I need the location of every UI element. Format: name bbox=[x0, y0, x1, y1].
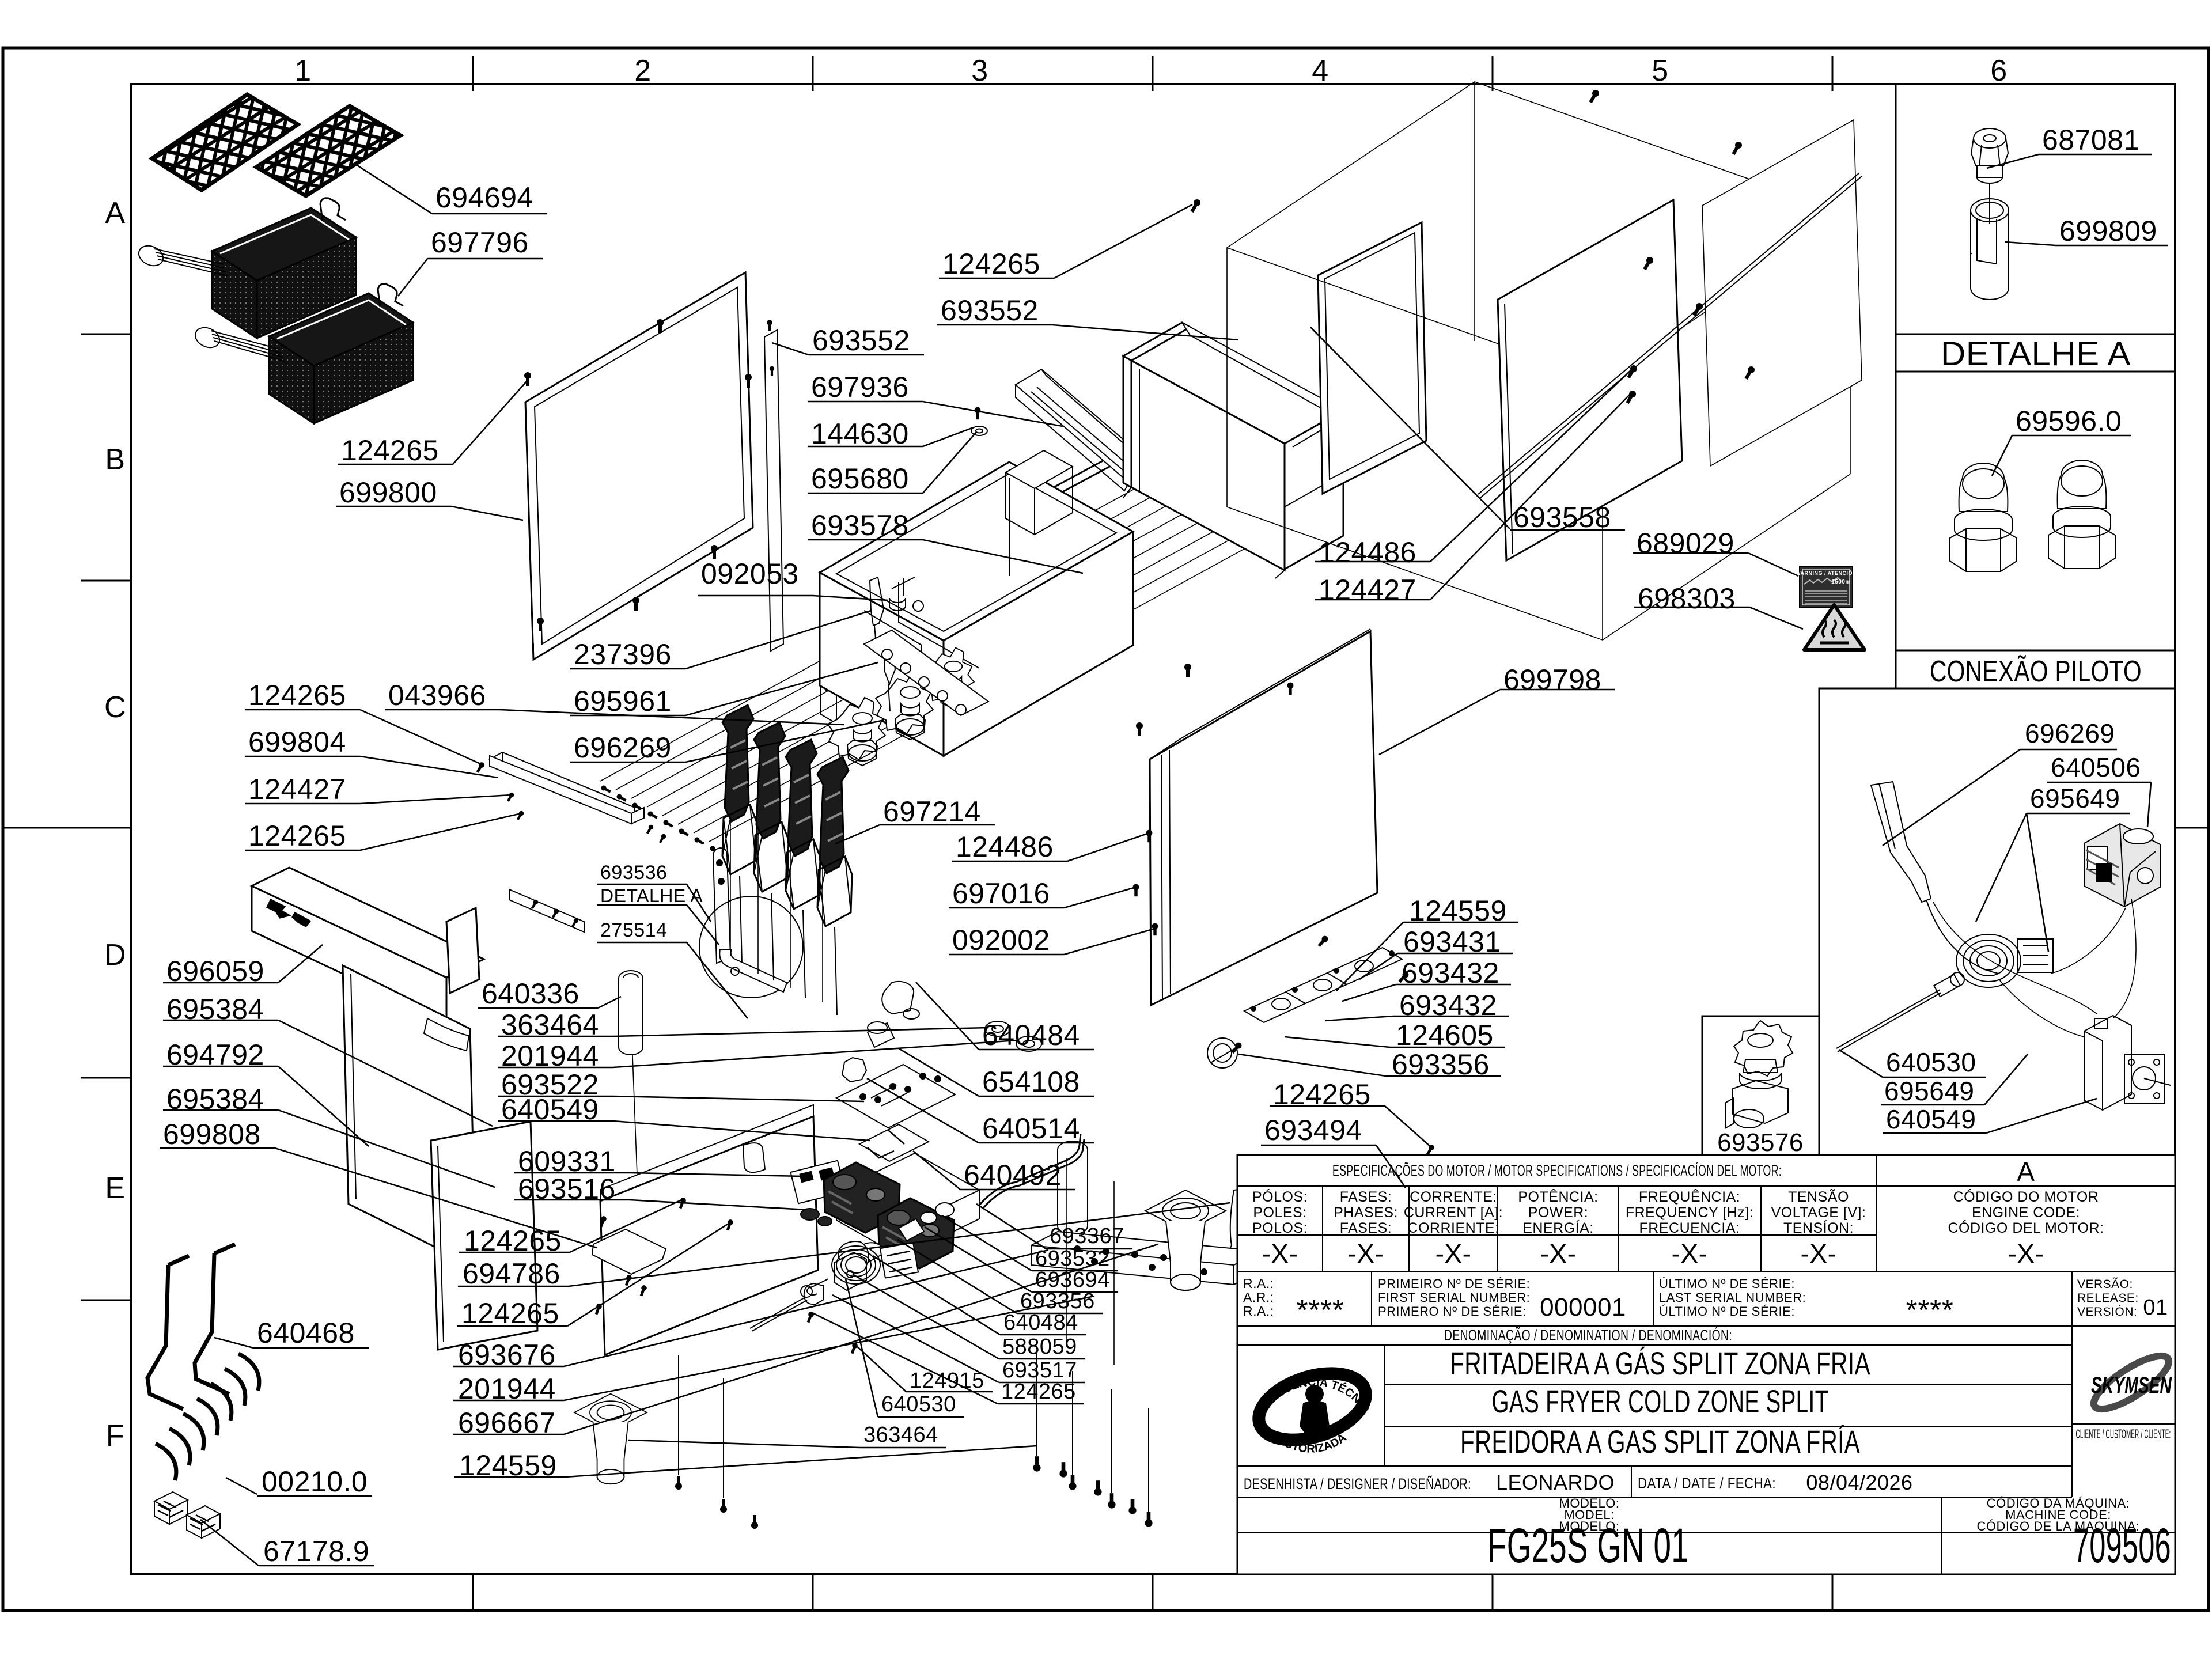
part label 124265 e bbox=[459, 1199, 683, 1252]
detail A balloon circle bbox=[699, 896, 803, 998]
floor panel 693676 bbox=[1031, 1232, 1260, 1285]
svg-text:D: D bbox=[104, 938, 126, 972]
part label 693532 bbox=[942, 1215, 1118, 1271]
valve mounting plate with keyholes bbox=[864, 630, 988, 715]
part label 687081 bbox=[1987, 154, 2152, 168]
part label 124486 b bbox=[952, 833, 1149, 861]
svg-text:693694: 693694 bbox=[1035, 1268, 1110, 1292]
part label 640468 bbox=[214, 1338, 369, 1348]
svg-text:FASES:: FASES: bbox=[1340, 1189, 1392, 1205]
part label 124265 g bbox=[811, 1312, 1084, 1404]
svg-text:RELEASE:: RELEASE: bbox=[2077, 1291, 2139, 1305]
elbow 640484b bbox=[838, 1241, 869, 1272]
part label 693367 bbox=[976, 1204, 1132, 1249]
part label 275514 bbox=[597, 942, 748, 1018]
part label 124265 c bbox=[245, 710, 480, 764]
svg-text:PRIMERO Nº DE SÉRIE:: PRIMERO Nº DE SÉRIE: bbox=[1378, 1304, 1527, 1319]
manifold support rail upper bbox=[490, 756, 644, 824]
svg-text:SKYMSEN: SKYMSEN bbox=[2091, 1373, 2172, 1398]
combustion chamber 693552 bbox=[1123, 323, 1343, 578]
part label 201944 b bbox=[453, 1296, 1094, 1400]
part label 092053 bbox=[698, 596, 888, 600]
fold mark line C/D right bbox=[2175, 827, 2209, 829]
part label 640484 b bbox=[873, 1256, 1086, 1335]
nut 687081 bbox=[1971, 128, 2008, 183]
svg-text:ÚLTIMO Nº DE SÉRIE:: ÚLTIMO Nº DE SÉRIE: bbox=[1659, 1277, 1795, 1291]
part label 640514 bbox=[867, 1078, 1094, 1143]
front door panel bbox=[600, 1105, 818, 1355]
part label 693676 bbox=[453, 1250, 1048, 1366]
svg-text:695649: 695649 bbox=[1884, 1076, 1975, 1106]
svg-text:FREQUENCY [Hz]:: FREQUENCY [Hz]: bbox=[1626, 1205, 1753, 1221]
svg-text:698303: 698303 bbox=[1638, 582, 1736, 615]
part label detalhe a note bbox=[597, 905, 719, 945]
part label 694792 bbox=[163, 1066, 369, 1146]
lower floor bracket 699808 target bbox=[592, 1229, 666, 1274]
svg-text:695961: 695961 bbox=[574, 685, 672, 717]
svg-text:275514: 275514 bbox=[600, 919, 667, 941]
svg-text:1500m: 1500m bbox=[1831, 579, 1851, 585]
svg-text:-X-: -X- bbox=[1435, 1238, 1472, 1268]
right big panel 699798 bbox=[1150, 629, 1377, 1005]
lower drain cup bbox=[574, 1394, 647, 1484]
fryer tank 693578 assembly bbox=[820, 450, 1133, 756]
svg-text:LEONARDO: LEONARDO bbox=[1496, 1471, 1615, 1494]
part label 124265 d bbox=[245, 813, 521, 850]
screw row left of burners bbox=[600, 785, 612, 794]
svg-text:124265: 124265 bbox=[461, 1297, 559, 1330]
svg-text:696269: 696269 bbox=[574, 732, 672, 764]
part label 693558 bbox=[1310, 327, 1625, 530]
svg-text:654108: 654108 bbox=[982, 1066, 1080, 1098]
part label 693516 bbox=[514, 1200, 806, 1210]
svg-text:640530: 640530 bbox=[881, 1392, 956, 1416]
part label 609331 bbox=[514, 1173, 804, 1176]
svg-text:697016: 697016 bbox=[952, 877, 1050, 910]
part label 696269 a bbox=[570, 720, 884, 762]
svg-text:693516: 693516 bbox=[518, 1173, 616, 1205]
bottom zone ruler ticks bbox=[472, 1574, 474, 1611]
part label 697016 bbox=[949, 887, 1136, 908]
svg-text:POLES:: POLES: bbox=[1253, 1205, 1306, 1221]
svg-text:R.A.:: R.A.: bbox=[1243, 1304, 1274, 1319]
igniter coil 695649 (pilot box) bbox=[1950, 934, 2053, 987]
svg-text:FREQUÊNCIA:: FREQUÊNCIA: bbox=[1639, 1188, 1740, 1205]
clip 693517 bbox=[804, 1283, 824, 1304]
svg-text:FRITADEIRA A GÁS SPLIT ZONA FR: FRITADEIRA A GÁS SPLIT ZONA FRIA bbox=[1450, 1345, 1870, 1381]
side sheet 699813 rear bbox=[1702, 120, 1862, 466]
svg-text:201944: 201944 bbox=[501, 1040, 599, 1072]
svg-text:GAS FRYER COLD ZONE SPLIT: GAS FRYER COLD ZONE SPLIT bbox=[1492, 1383, 1829, 1419]
svg-text:POLOS:: POLOS: bbox=[1252, 1220, 1308, 1236]
svg-text:124915: 124915 bbox=[910, 1369, 984, 1393]
part label 694694 bbox=[357, 165, 547, 214]
orifice plate 693522 bbox=[836, 1065, 955, 1128]
svg-text:640484: 640484 bbox=[982, 1019, 1080, 1051]
svg-text:640549: 640549 bbox=[1886, 1104, 1976, 1134]
conexao piloto drawing box bbox=[1819, 688, 2175, 1155]
part label 699800 bbox=[336, 506, 523, 520]
svg-text:696059: 696059 bbox=[166, 955, 264, 987]
grommet 693516 bbox=[801, 1209, 832, 1226]
copper pipe 693367 bbox=[979, 1134, 1081, 1205]
white cylinder 640336 bbox=[619, 971, 643, 1175]
part label 693552 c bbox=[772, 343, 924, 355]
part label 69596.0 bbox=[1992, 435, 2131, 476]
rear panel 693558 bbox=[1318, 222, 1426, 494]
part label 695384 b bbox=[163, 1110, 495, 1187]
svg-text:687081: 687081 bbox=[2042, 124, 2140, 156]
svg-text:693532: 693532 bbox=[1035, 1247, 1110, 1271]
pilot strap bracket 693536 bbox=[713, 848, 730, 963]
svg-text:00210.0: 00210.0 bbox=[262, 1465, 368, 1498]
svg-text:697796: 697796 bbox=[431, 226, 529, 259]
burner tray 275514 bbox=[836, 1153, 979, 1257]
svg-text:DESENHISTA / DESIGNER / DISEÑA: DESENHISTA / DESIGNER / DISEÑADOR: bbox=[1244, 1475, 1471, 1493]
svg-text:CONEXÃO PILOTO: CONEXÃO PILOTO bbox=[1930, 655, 2142, 688]
svg-text:693536: 693536 bbox=[600, 862, 667, 884]
part label 043966 bbox=[385, 710, 844, 725]
svg-text:699800: 699800 bbox=[339, 476, 437, 509]
svg-text:1: 1 bbox=[294, 54, 311, 88]
DETALHE A box bbox=[1896, 84, 2175, 334]
svg-text:237396: 237396 bbox=[574, 638, 672, 671]
svg-text:2: 2 bbox=[634, 54, 651, 88]
svg-text:PÓLOS:: PÓLOS: bbox=[1252, 1188, 1308, 1205]
svg-text:5: 5 bbox=[1652, 54, 1668, 88]
svg-text:695680: 695680 bbox=[811, 463, 909, 495]
valve knob 3 bbox=[922, 647, 974, 709]
svg-text:LAST SERIAL NUMBER:: LAST SERIAL NUMBER: bbox=[1659, 1290, 1806, 1305]
pilot fitting 69596.0 left bbox=[1950, 463, 2017, 571]
svg-text:693431: 693431 bbox=[1403, 926, 1501, 958]
svg-text:124265: 124265 bbox=[1001, 1380, 1076, 1404]
top zone ruler ticks bbox=[472, 56, 474, 91]
svg-text:POTÊNCIA:: POTÊNCIA: bbox=[1518, 1188, 1598, 1205]
svg-text:124486: 124486 bbox=[956, 831, 1054, 863]
burner tube 3 bbox=[786, 740, 820, 998]
svg-text:640549: 640549 bbox=[501, 1093, 599, 1126]
svg-text:-X-: -X- bbox=[1262, 1238, 1298, 1268]
electrode 695961 bbox=[885, 646, 895, 711]
part label 201944 a bbox=[498, 1040, 1017, 1067]
svg-text:FRECUENCIA:: FRECUENCIA: bbox=[1639, 1220, 1740, 1236]
part label 695680 bbox=[808, 432, 976, 493]
part label 124559 a bbox=[1336, 922, 1518, 991]
svg-text:C: C bbox=[104, 691, 126, 724]
svg-text:****: **** bbox=[1297, 1294, 1344, 1327]
heat deflector rail 697936 bbox=[1016, 369, 1157, 491]
part label 144630 bbox=[808, 427, 974, 446]
svg-text:-X-: -X- bbox=[1348, 1238, 1384, 1268]
part label 124427 a bbox=[1315, 393, 1631, 600]
part label 693432 b bbox=[1325, 1016, 1509, 1021]
part label 124265 b bbox=[939, 204, 1192, 278]
CONEXAO PILOTO title band bbox=[1896, 650, 2175, 688]
skymsen logo bbox=[2087, 1347, 2176, 1418]
svg-text:092002: 092002 bbox=[952, 924, 1050, 956]
svg-text:124265: 124265 bbox=[464, 1225, 562, 1257]
svg-text:694792: 694792 bbox=[166, 1039, 264, 1071]
part label 693694 bbox=[925, 1227, 1118, 1292]
svg-text:CLIENTE / CUSTOMER / CLIENTE:: CLIENTE / CUSTOMER / CLIENTE: bbox=[2076, 1427, 2171, 1441]
svg-text:697936: 697936 bbox=[811, 371, 909, 403]
thermostat 640549 (pilot box) bbox=[2084, 1016, 2171, 1110]
part label 695649 c bbox=[1881, 1054, 2028, 1105]
svg-text:A: A bbox=[2017, 1157, 2035, 1187]
part label 124265 h bbox=[1270, 1106, 1431, 1147]
svg-text:699804: 699804 bbox=[248, 726, 346, 758]
part label 640549 b bbox=[1883, 1099, 2097, 1133]
pan support 640549 bbox=[859, 1124, 929, 1161]
pilot fitting 69596.0 right bbox=[2048, 460, 2115, 569]
valve knob 1 bbox=[828, 698, 885, 766]
pilot fittings box (69596.0) bbox=[1896, 372, 2175, 650]
mounting plates 693431/693432 stack bbox=[1244, 948, 1402, 1022]
svg-text:124427: 124427 bbox=[1319, 574, 1416, 606]
part label 693356 b bbox=[897, 1240, 1103, 1313]
svg-text:693576: 693576 bbox=[1717, 1128, 1804, 1157]
bracket 588059 bbox=[834, 1252, 866, 1290]
part label 696269 b bbox=[1883, 749, 2117, 846]
part label 00210.0 bbox=[226, 1478, 372, 1496]
svg-text:ENERGÍA:: ENERGÍA: bbox=[1522, 1219, 1593, 1236]
svg-text:4: 4 bbox=[1312, 54, 1328, 88]
svg-text:000001: 000001 bbox=[1540, 1293, 1626, 1321]
part label 693536 bbox=[597, 884, 711, 922]
burner tube 1 bbox=[722, 705, 757, 963]
flue housing 696059 bbox=[252, 868, 484, 1022]
mounting bracket 693494 bbox=[1265, 1206, 1475, 1265]
svg-text:694786: 694786 bbox=[463, 1257, 560, 1290]
svg-text:124427: 124427 bbox=[248, 773, 346, 805]
svg-text:VERSÃO:: VERSÃO: bbox=[2077, 1277, 2133, 1291]
washers 363464 bbox=[985, 1021, 1041, 1051]
screws near panel 699798 bbox=[1136, 722, 1143, 736]
part label 640530 b bbox=[846, 1279, 964, 1417]
svg-text:699808: 699808 bbox=[163, 1118, 261, 1150]
svg-text:CÓDIGO DO MOTOR: CÓDIGO DO MOTOR bbox=[1953, 1188, 2099, 1205]
part label 699809 bbox=[2005, 242, 2168, 245]
svg-text:695384: 695384 bbox=[166, 1083, 264, 1115]
part label 124915 bbox=[854, 1344, 993, 1392]
svg-text:-X-: -X- bbox=[2008, 1238, 2044, 1268]
svg-text:588059: 588059 bbox=[1002, 1335, 1077, 1359]
svg-text:640484: 640484 bbox=[1003, 1310, 1078, 1335]
svg-text:640514: 640514 bbox=[982, 1112, 1080, 1145]
part label 640336 bbox=[478, 997, 621, 1008]
svg-text:ESPECIFICAÇÕES DO MOTOR / MOTO: ESPECIFICAÇÕES DO MOTOR / MOTOR SPECIFIC… bbox=[1332, 1161, 1782, 1179]
thermocouple 237396 bbox=[870, 577, 884, 651]
inner door 694792 bbox=[343, 965, 476, 1267]
terminal blocks 67178.9 bbox=[154, 1492, 188, 1524]
part label 640530 c bbox=[1839, 1050, 1986, 1077]
warning triangle 698303 (hot surface) bbox=[1804, 605, 1865, 650]
svg-text:693517: 693517 bbox=[1002, 1358, 1077, 1382]
part label 363464 a bbox=[498, 1028, 988, 1036]
part label 363464 b bbox=[628, 1440, 946, 1448]
part label 124427 b bbox=[245, 795, 512, 804]
svg-text:124265: 124265 bbox=[1273, 1078, 1371, 1111]
capillary rod to lower left bbox=[750, 1297, 805, 1328]
orifice holder 693356 bbox=[1207, 1038, 1237, 1068]
part label 695649 a bbox=[1976, 813, 2130, 952]
part label 695961 bbox=[570, 662, 878, 715]
part label 124605 bbox=[1285, 1037, 1505, 1047]
svg-text:693552: 693552 bbox=[812, 324, 910, 357]
svg-text:POWER:: POWER: bbox=[1528, 1205, 1588, 1221]
gas valve 640506 (pilot box) bbox=[2084, 824, 2160, 907]
part label 124265 f bbox=[457, 1222, 730, 1326]
svg-text:E: E bbox=[105, 1172, 125, 1205]
part label 699808 bbox=[160, 1148, 597, 1248]
svg-text:693552: 693552 bbox=[941, 294, 1039, 327]
svg-text:-X-: -X- bbox=[1540, 1238, 1577, 1268]
part label 124559 b bbox=[454, 1446, 1037, 1477]
valve 693576 box bbox=[1702, 1016, 1819, 1155]
svg-text:640468: 640468 bbox=[257, 1317, 355, 1349]
svg-text:A.R.:: A.R.: bbox=[1243, 1290, 1274, 1305]
svg-text:092053: 092053 bbox=[701, 558, 799, 590]
svg-text:201944: 201944 bbox=[458, 1373, 556, 1405]
part label 693578 bbox=[808, 540, 1083, 573]
svg-text:DETALHE A: DETALHE A bbox=[600, 885, 703, 906]
svg-text:640530: 640530 bbox=[1886, 1047, 1976, 1077]
springs 00210.0 bbox=[156, 1354, 259, 1480]
wall bracket 699804 bbox=[490, 752, 635, 819]
gas manifold pipe bbox=[821, 439, 1148, 724]
part label 124265 a bbox=[338, 380, 528, 464]
svg-text:693432: 693432 bbox=[1402, 957, 1499, 989]
part label 695384 a bbox=[163, 1020, 493, 1126]
svg-text:CÓDIGO DEL MOTOR:: CÓDIGO DEL MOTOR: bbox=[1948, 1219, 2104, 1236]
socket 699809 bbox=[1971, 199, 2009, 300]
leg bolt 1 bbox=[1036, 1353, 1037, 1456]
svg-text:B: B bbox=[105, 443, 125, 476]
part label 693552 b bbox=[937, 325, 1238, 340]
svg-text:144630: 144630 bbox=[811, 418, 909, 450]
part label 697936 bbox=[808, 402, 1063, 426]
thermocouple probe 696269 (pilot box) bbox=[1871, 782, 1999, 974]
screw 144630 and nut 695680 bbox=[975, 407, 981, 420]
part label 640484 a bbox=[916, 982, 1094, 1050]
gate valve drawing (693576) bbox=[1726, 1021, 1793, 1128]
side sheet 699813 front bbox=[1498, 200, 1682, 560]
gas valve block 640492 #2 bbox=[878, 1198, 954, 1268]
part label 693494 bbox=[1261, 1145, 1406, 1188]
svg-text:DETALHE A: DETALHE A bbox=[1941, 335, 2131, 373]
packing grid 694694 #2 bbox=[256, 106, 400, 196]
svg-text:3: 3 bbox=[971, 54, 988, 88]
svg-text:693356: 693356 bbox=[1020, 1289, 1095, 1313]
svg-text:PRIMEIRO Nº DE SÉRIE:: PRIMEIRO Nº DE SÉRIE: bbox=[1378, 1277, 1530, 1291]
part label 693432 a bbox=[1342, 984, 1511, 1001]
part label 697214 bbox=[835, 825, 995, 844]
left zone ticks bbox=[81, 334, 131, 335]
svg-text:TENSÃO: TENSÃO bbox=[1788, 1188, 1849, 1205]
svg-text:124265: 124265 bbox=[341, 434, 439, 467]
svg-text:VOLTAGE [V]:: VOLTAGE [V]: bbox=[1771, 1205, 1866, 1221]
svg-text:CURRENT [A]:: CURRENT [A]: bbox=[1404, 1205, 1503, 1221]
pipe fittings small cluster (693532/693694/693356b) bbox=[862, 1203, 954, 1263]
svg-text:FIRST SERIAL NUMBER:: FIRST SERIAL NUMBER: bbox=[1378, 1290, 1530, 1305]
long pipe runs bbox=[600, 472, 1274, 842]
tap valve 092053 bbox=[889, 577, 923, 611]
svg-text:ENGINE CODE:: ENGINE CODE: bbox=[1972, 1205, 2080, 1221]
svg-text:363464: 363464 bbox=[863, 1423, 938, 1447]
svg-text:67178.9: 67178.9 bbox=[263, 1535, 369, 1567]
svg-text:124559: 124559 bbox=[459, 1449, 557, 1482]
svg-text:FG25S GN 01: FG25S GN 01 bbox=[1487, 1518, 1689, 1573]
burner tube 2 bbox=[754, 722, 789, 980]
svg-text:WARNING / ATENCIÓN: WARNING / ATENCIÓN bbox=[1796, 570, 1857, 576]
svg-text:PHASES:: PHASES: bbox=[1334, 1205, 1398, 1221]
pipe fittings 640484/654108/640514 bbox=[842, 982, 919, 1082]
burner tube 4 bbox=[817, 757, 852, 1015]
svg-text:697214: 697214 bbox=[883, 796, 981, 828]
svg-text:124605: 124605 bbox=[1396, 1019, 1494, 1051]
svg-text:-X-: -X- bbox=[1801, 1238, 1837, 1268]
part label 698303 bbox=[1634, 607, 1803, 629]
svg-text:696667: 696667 bbox=[458, 1407, 556, 1439]
leg bolt 4 bbox=[1148, 1408, 1149, 1512]
svg-text:DATA / DATE / FECHA:: DATA / DATE / FECHA: bbox=[1638, 1475, 1776, 1492]
capillary probe 640530 (pilot box) bbox=[1836, 975, 1960, 1052]
svg-text:694694: 694694 bbox=[435, 181, 533, 214]
manifold support rail lower bbox=[509, 889, 584, 932]
fry basket 697796 #2 bbox=[192, 284, 413, 423]
part label 697796 bbox=[398, 259, 543, 296]
svg-text:124486: 124486 bbox=[1319, 536, 1416, 569]
assistencia tecnica logo bbox=[0, 0, 1374, 1456]
fold mark line C/D left bbox=[3, 827, 131, 829]
svg-text:043966: 043966 bbox=[388, 679, 486, 711]
part label 693522 bbox=[498, 1096, 864, 1101]
support gusset 694786 bbox=[1220, 1188, 1278, 1280]
rear door 695384/699808 bbox=[431, 1122, 537, 1350]
warning sticker 689029 bbox=[1800, 566, 1853, 608]
part label 640492 bbox=[913, 1151, 1075, 1190]
svg-text:696269: 696269 bbox=[2025, 718, 2115, 748]
svg-text:693356: 693356 bbox=[1392, 1048, 1490, 1081]
pilot elbow inside balloon bbox=[719, 949, 787, 992]
svg-text:ÚLTIMO Nº DE SÉRIE:: ÚLTIMO Nº DE SÉRIE: bbox=[1659, 1304, 1795, 1319]
svg-text:640506: 640506 bbox=[2051, 752, 2141, 782]
svg-text:689029: 689029 bbox=[1637, 527, 1734, 559]
wire from nut to socket bbox=[1989, 183, 1990, 224]
svg-text:VERSIÓN:: VERSIÓN: bbox=[2077, 1305, 2137, 1319]
thin strip panel left of tank bbox=[764, 330, 783, 651]
svg-text:69596.0: 69596.0 bbox=[2016, 405, 2122, 437]
svg-text:640492: 640492 bbox=[964, 1159, 1062, 1191]
DETALHE A title band bbox=[1896, 334, 2175, 335]
part label 092002 bbox=[949, 929, 1155, 955]
svg-text:DENOMINAÇÃO / DENOMINATION / D: DENOMINAÇÃO / DENOMINATION / DENOMINACIÓ… bbox=[1444, 1326, 1732, 1344]
part label 696667 bbox=[453, 1244, 1158, 1434]
svg-text:693494: 693494 bbox=[1264, 1114, 1362, 1146]
svg-text:CORRIENTE:: CORRIENTE: bbox=[1407, 1220, 1499, 1236]
svg-text:F: F bbox=[106, 1419, 124, 1453]
svg-text:124265: 124265 bbox=[248, 820, 346, 852]
part label 654108 bbox=[899, 1048, 1094, 1096]
svg-text:CORRENTE:: CORRENTE: bbox=[1410, 1189, 1497, 1205]
svg-text:693432: 693432 bbox=[1399, 989, 1497, 1021]
burner drop pipes bbox=[730, 818, 823, 1002]
svg-text:693367: 693367 bbox=[1050, 1224, 1124, 1248]
part label 699804 bbox=[245, 756, 498, 778]
fry basket 697796 #1 bbox=[135, 198, 356, 338]
svg-text:124265: 124265 bbox=[248, 679, 346, 711]
